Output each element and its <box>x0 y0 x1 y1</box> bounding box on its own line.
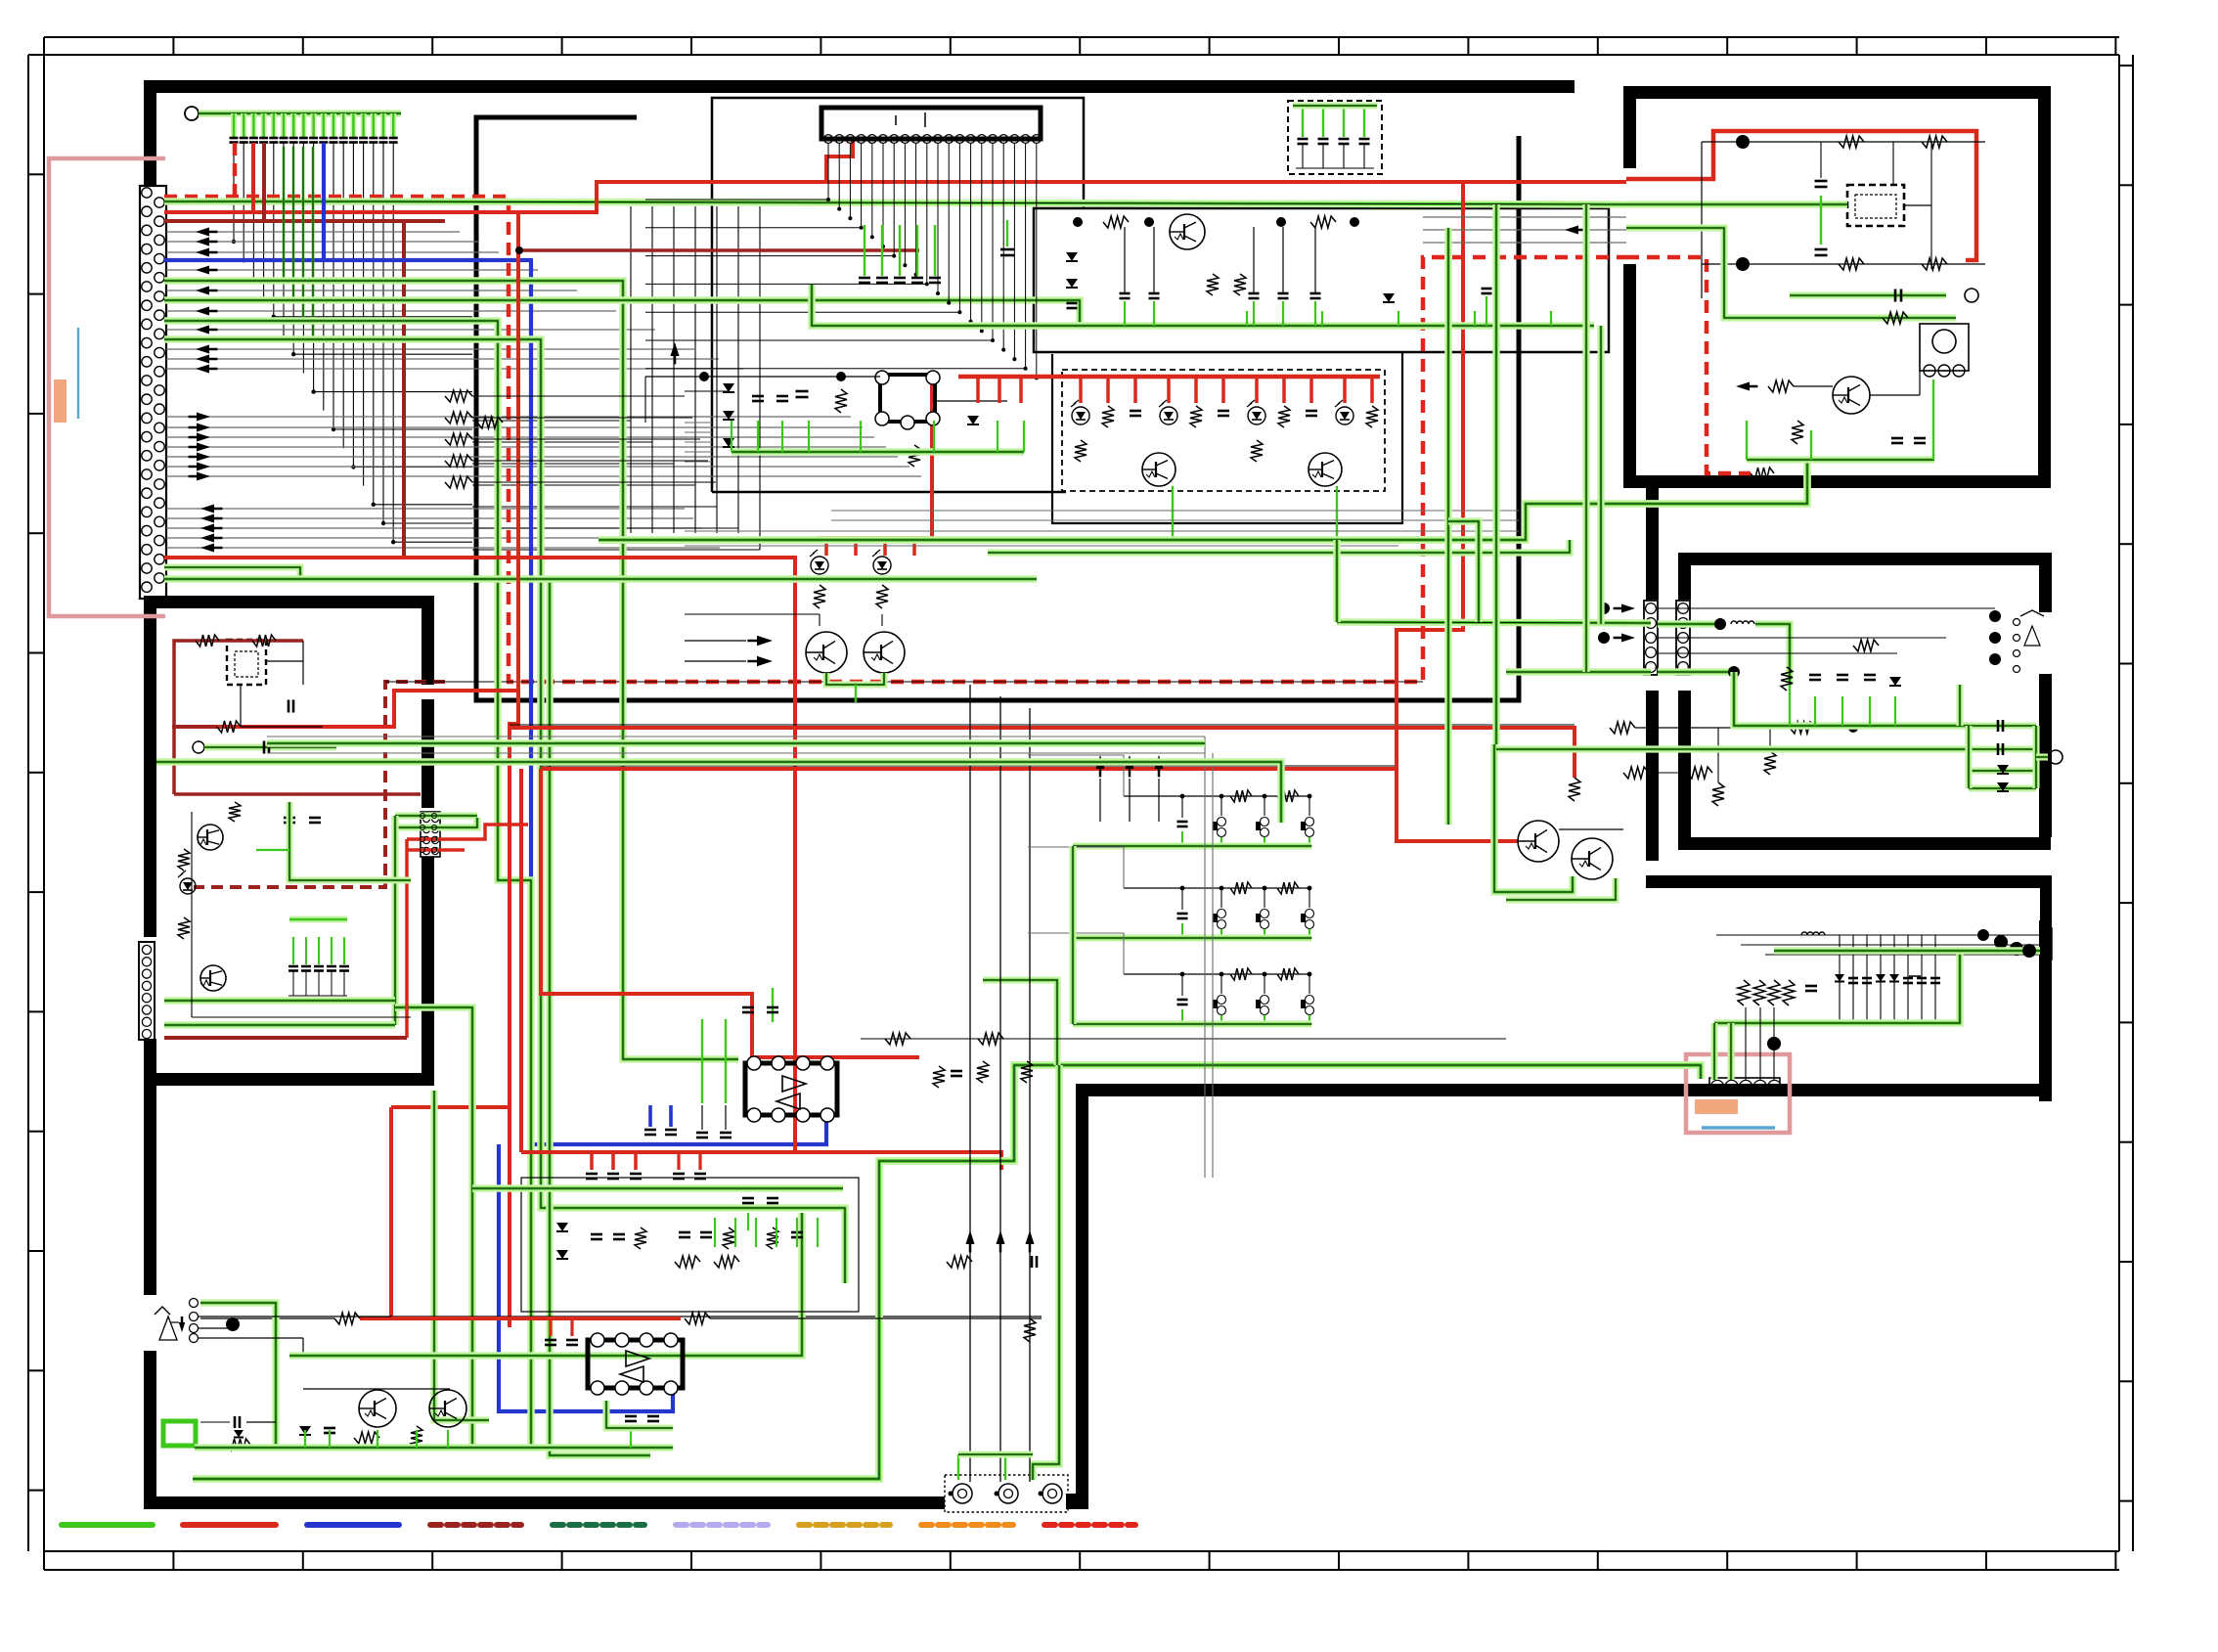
mesh vertical thin drops from display module <box>630 206 632 421</box>
tuner transistor Q1 <box>198 825 223 850</box>
top-right block left edge seg1 <box>1623 86 1636 168</box>
green bus under display <box>812 285 1594 326</box>
red dashed wire ACC from pin1 <box>233 143 238 197</box>
sheet left ruler band <box>27 55 29 1551</box>
filter comb rail <box>1124 795 1311 797</box>
tuner cap comb <box>292 937 294 964</box>
main unit border bottom edge <box>144 1496 945 1509</box>
mid-bottom green ring <box>472 1184 843 1192</box>
mid connector CN3 pins <box>421 812 440 857</box>
audio transistor top-right <box>1833 377 1870 414</box>
tuner opto LED <box>180 878 196 894</box>
green risers into pink connector <box>1710 1023 1717 1080</box>
legend blue solid <box>307 1522 399 1528</box>
tuner red branch <box>174 725 217 729</box>
red trunk right side <box>818 377 932 538</box>
legend green solid <box>62 1522 153 1528</box>
filter comb FET cells <box>1220 888 1222 908</box>
tuner caps <box>284 817 295 820</box>
power transistor pair right <box>1518 821 1559 862</box>
green drop to RCA <box>1033 1065 1059 1480</box>
filter comb green bus <box>1073 842 1311 849</box>
red stubs IC2 <box>549 1318 552 1336</box>
red trunk B <box>519 769 523 1152</box>
dark red wire pin4 <box>262 143 266 221</box>
sheet top ruler band <box>44 36 2119 38</box>
speaker box top-right block <box>1920 324 1969 371</box>
main unit border left edge middle <box>144 599 156 937</box>
power pair thin wiring <box>1559 828 1623 830</box>
display right cap <box>1000 248 1014 251</box>
red wire top-right block loop <box>1626 131 1976 179</box>
mid resistors <box>835 389 847 413</box>
dark red dashed branch to opto <box>194 682 445 887</box>
dark red wire y256 <box>519 248 919 252</box>
main unit border right riser <box>1076 1084 1088 1496</box>
green wire pin12 <box>164 300 1080 327</box>
red drops transistor pair mid <box>824 538 828 556</box>
mid dots <box>699 372 709 381</box>
op-amp IC1 caps left <box>701 1105 703 1130</box>
tuner block right edge seg3 <box>421 857 434 1073</box>
illumination dashed box <box>1062 370 1385 491</box>
CN3 red rows <box>407 825 528 839</box>
tuner block right edge seg2 <box>421 699 434 808</box>
top-right block right edge <box>2038 86 2051 488</box>
illumination caps <box>1130 410 1141 413</box>
green verticals flanking inner wall <box>1582 204 1589 672</box>
tuner block top edge <box>144 596 434 608</box>
CN3 green trunk vertical <box>391 816 398 1025</box>
legend lavender dashed <box>676 1522 768 1528</box>
connector fanout gray lines middle group <box>166 416 851 418</box>
legend gold dashed <box>799 1522 890 1528</box>
bottom-right compartment bottom bar <box>1076 1084 2052 1096</box>
mid-right block right post below connector <box>2040 964 2052 1101</box>
top-right dashed capbank contents <box>1302 106 1304 137</box>
board-to-board connector right half <box>1676 601 1690 675</box>
green riser to lower ring <box>395 1007 472 1446</box>
pink remote connector box <box>1686 1054 1790 1133</box>
node circle top-left <box>185 107 199 120</box>
green bus 2 <box>732 448 1024 456</box>
green wire through board connector upper <box>1337 622 1651 623</box>
motor drive upper arrows <box>1095 755 1104 769</box>
IF bias parts <box>1073 217 1083 227</box>
main left connector CN1 pins <box>142 188 152 198</box>
red wire pin3 to top area <box>251 143 255 212</box>
main connector salmon label <box>54 380 67 423</box>
resistor ladder left of display <box>445 390 472 402</box>
main PCB inner boundary <box>476 117 1519 700</box>
connector fanout gray lines upper group <box>166 231 460 233</box>
mid-right block right edge seg2 <box>2039 674 2052 837</box>
mid-bottom network outline <box>521 1178 859 1312</box>
filter comb cap cell <box>1181 796 1183 818</box>
display cap cluster below IC <box>864 225 865 276</box>
green risers right edge <box>1956 685 1963 726</box>
center transistor pair <box>806 632 847 673</box>
tuner dark red loop <box>174 641 303 794</box>
center pair green emitter bus <box>826 673 884 685</box>
display IC pin stubs down <box>645 144 828 200</box>
RCA green stubs <box>957 1454 959 1480</box>
tuner thin wiring <box>302 641 304 685</box>
main connector pink outline box <box>49 158 165 616</box>
top-left green bus <box>199 110 401 117</box>
tuner block right edge seg1 <box>421 596 434 685</box>
blue stubs near IC1 <box>648 1105 652 1127</box>
filter comb rail <box>1124 887 1311 889</box>
green second row <box>1626 228 1956 318</box>
top-right block bottom edge <box>1623 475 2051 488</box>
mid thin rails <box>645 376 880 378</box>
green wire pin2 long to top-right block <box>164 198 357 205</box>
headphone jack <box>190 1299 199 1308</box>
main unit border left edge upper <box>144 80 156 186</box>
tuner green link <box>193 741 204 753</box>
green wire pin14 <box>164 321 531 1446</box>
green wire pin16 <box>164 339 845 1283</box>
green IC2 surround <box>606 1401 673 1428</box>
blue trunk vertical <box>531 260 826 1144</box>
mid-bottom greens <box>714 1218 716 1247</box>
dark red tuner out <box>164 1036 407 1040</box>
green comb feed stub <box>983 980 1057 1065</box>
mid-right block top edge <box>1678 553 2051 565</box>
CN3 green loop rows <box>395 812 477 819</box>
green feed to bridge <box>1496 745 1969 752</box>
green bus bottom right <box>1714 951 1960 1023</box>
remote connector salmon label <box>1695 1099 1738 1114</box>
illumination red drops <box>976 377 980 403</box>
IF module left diodes <box>1066 252 1078 261</box>
arrow up mid <box>670 342 679 356</box>
mid-right green bus <box>1734 672 1969 726</box>
green wire pin21 long <box>164 575 1037 583</box>
tuner thin outline wires <box>191 812 193 1017</box>
green long rails middle <box>267 739 1205 747</box>
green wire through board connector lower <box>1506 668 1651 676</box>
resistor row right mid <box>1712 782 1724 806</box>
mid caps <box>752 395 764 398</box>
dark red horizontal right <box>541 767 1397 771</box>
illumination outer thin box <box>1052 352 1402 523</box>
top-left bus capacitor drops <box>231 113 237 137</box>
illumination red bus <box>958 375 1380 380</box>
jack green wire <box>200 1303 276 1448</box>
illumination greens <box>1172 486 1174 540</box>
mid-right block left edge seg2 <box>1678 691 1691 837</box>
main unit border left edge lower <box>144 1039 156 1295</box>
tuner transistor Q2 <box>200 965 226 991</box>
antenna connector right edge <box>2040 928 2052 960</box>
green jog to connector row <box>1448 521 1479 622</box>
relay dashed box top-right block <box>1847 185 1904 226</box>
mid-right filter caps <box>1781 667 1793 691</box>
gray rails under green bus <box>831 510 1519 512</box>
green right corridor full <box>1492 204 1500 744</box>
top-right block top edge <box>1623 86 2051 99</box>
legend orange dashed <box>921 1522 1013 1528</box>
sheet right ruler band <box>2118 55 2120 1551</box>
mid-right block right edge seg1 <box>2039 553 2052 612</box>
dark red trunk C <box>541 769 919 1057</box>
mid diodes column <box>723 383 734 392</box>
filter comb green bus <box>1073 1020 1311 1027</box>
thin rails center <box>685 613 820 615</box>
mid-right block bottom inner bar <box>1678 837 2051 850</box>
IC1 green columns <box>772 988 774 1022</box>
bottom small parts <box>234 1416 237 1428</box>
bottom green verticals <box>304 1430 306 1448</box>
op-amp IC2 body <box>588 1340 683 1388</box>
op-amp IC1 body <box>745 1063 837 1115</box>
connector fanout gray lines lower group <box>166 508 685 510</box>
mid-right block right post lower <box>2040 880 2052 923</box>
diode cap row bottom right <box>1839 935 1841 1023</box>
mid-bottom caps and diodes <box>556 1223 568 1231</box>
caps row below IC1 <box>742 1197 754 1200</box>
blue wire pin8 <box>322 143 326 260</box>
green stub pin20 <box>164 567 300 579</box>
diode right of quad box <box>967 416 979 424</box>
illumination lower resistors <box>1075 440 1087 462</box>
red drops with caps near op-amp1 <box>590 1152 594 1170</box>
tuner block bottom edge <box>144 1073 434 1086</box>
red dashed wire inside top-right block <box>1626 257 1751 473</box>
center pair resistors and LEDs <box>814 585 825 608</box>
filter comb FET cells <box>1220 974 1222 994</box>
second green rail <box>988 540 1570 553</box>
IC1 surrounding resistors <box>885 1033 910 1045</box>
legend red solid <box>183 1522 276 1528</box>
red riser CN2 to CN3 <box>405 839 409 1038</box>
red trunk A <box>510 212 518 1327</box>
green riser from dashes <box>1746 421 1748 460</box>
cap bank dashed box top right of display <box>1288 101 1382 174</box>
display IC body <box>821 108 1041 139</box>
filter comb cap cell <box>1181 974 1183 996</box>
vertical resistors bottom right <box>1738 980 1750 1005</box>
display IC pins <box>824 135 833 144</box>
RCA jack dotted box bottom <box>945 1475 1068 1512</box>
center pair feed arrows <box>757 636 773 646</box>
main unit border top edge <box>144 80 1575 93</box>
green into tuner block <box>164 997 395 1005</box>
red wire into IC2 area <box>391 1317 681 1320</box>
top-right thin circuit <box>1701 142 1703 298</box>
servo quad box <box>880 375 935 422</box>
green trunk verticals from caps <box>283 147 286 281</box>
long green mid bus <box>599 459 1807 540</box>
red riser from long red to lower area <box>1397 182 1518 841</box>
remote connector blue underline <box>1702 1126 1775 1130</box>
left connector CN2 pins <box>142 945 151 954</box>
green entry to capbank <box>1293 102 1377 109</box>
green wire pin10 long <box>164 281 738 1059</box>
filter comb cap cell <box>1181 888 1183 910</box>
tuner resistors <box>178 849 190 871</box>
IF transistor <box>1170 214 1205 249</box>
main unit border bottom corner piece <box>1066 1494 1088 1509</box>
illumination resistors <box>1102 406 1114 427</box>
long gray rails middle <box>267 736 1205 737</box>
bottom green long feed <box>289 1213 802 1356</box>
top-right block left edge seg2 <box>1623 264 1636 488</box>
green verticals bottom of TR block <box>1747 456 1934 463</box>
long green bottom loop <box>193 1065 1701 1479</box>
green out of relay to jack <box>1790 291 1946 298</box>
interconnect stub lower <box>1646 691 1659 861</box>
main connector blue tick <box>77 328 79 419</box>
dark red right end resistor <box>1610 722 1635 734</box>
RCA jacks bottom <box>953 1484 972 1503</box>
legend dark green dashed <box>553 1522 644 1528</box>
illumination transistors <box>1142 453 1176 486</box>
tuner-IF module outline <box>1034 208 1609 352</box>
tuner greens <box>289 802 411 880</box>
filter comb FET cells <box>1220 796 1222 816</box>
opto dashed box in tuner block <box>227 640 266 685</box>
headphone jack symbol right <box>1989 610 2001 622</box>
blue wire lower branch <box>499 1144 673 1411</box>
bottom green bus <box>195 1444 673 1451</box>
red feed under op-amp <box>521 1152 1001 1170</box>
main left connector CN1 body <box>140 186 166 599</box>
thin rails to antenna connector <box>1716 934 2040 936</box>
fanout staircase mesh <box>234 143 472 242</box>
green square inductor <box>163 1421 196 1446</box>
caps pair above IC1 <box>742 1006 754 1009</box>
illumination LEDs <box>1072 407 1089 424</box>
filter comb rail <box>1124 973 1311 975</box>
cap-diode bridge mid-right <box>1969 722 2036 729</box>
dark red long horizontal mid <box>172 691 519 727</box>
sheet bottom ruler band <box>44 1550 2119 1552</box>
display module outline <box>712 98 1084 492</box>
green corridor risers <box>1333 540 1341 622</box>
main unit border left edge bottom <box>144 1351 156 1509</box>
motor drive lines <box>969 685 971 1482</box>
green trunk to IC2 <box>550 579 650 1455</box>
red wire branch to display caps <box>826 141 853 182</box>
jack thin wires <box>199 1316 1042 1317</box>
board-to-board connector left half <box>1644 601 1658 675</box>
mid-right jack wiring gray <box>1658 607 1995 609</box>
mid-right block bottom outer bar <box>1646 875 2052 888</box>
red wire lower pin <box>164 558 795 1152</box>
interconnect stub upper <box>1646 488 1659 600</box>
thin feeds into pink connector <box>1745 1007 1747 1080</box>
IC2 bottom caps <box>625 1415 637 1418</box>
IC1 red caps left <box>677 1152 680 1170</box>
gray lines top module to left connector <box>685 422 712 424</box>
green around power pair <box>1494 744 1573 892</box>
green wire into relay box <box>1626 201 1847 208</box>
mid-right block left edge seg1 <box>1678 553 1691 600</box>
thin rails to top-right block <box>1423 216 1626 218</box>
bottom-right compartment right edge <box>2039 920 2052 1101</box>
filter comb chain vertical <box>1069 846 1076 1024</box>
legend dark red dashed <box>430 1522 521 1528</box>
green drop along tuner edge <box>434 1091 489 1420</box>
green risers in IF module <box>1246 311 1248 326</box>
legend bright red dashed <box>1044 1522 1135 1528</box>
filter comb green bus <box>1073 934 1311 941</box>
remote connector body <box>1709 1078 1780 1095</box>
left connector CN2 body <box>139 942 155 1040</box>
